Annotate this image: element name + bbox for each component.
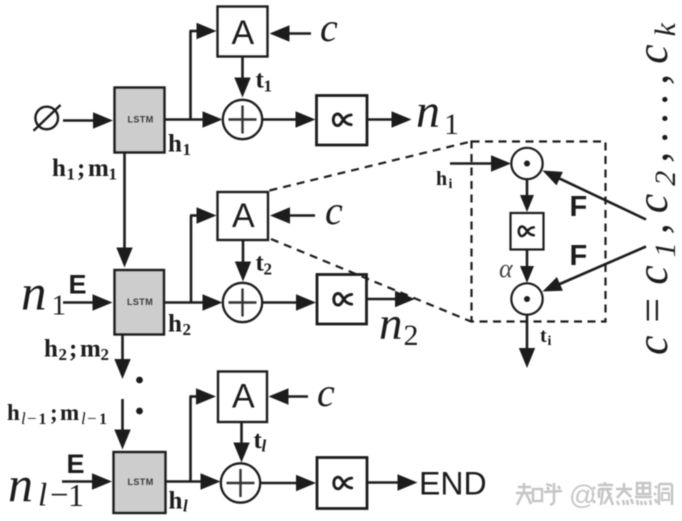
dashed inset box (attention detail) xyxy=(472,142,606,322)
wire: A1 down to adder 1, label t_1 xyxy=(241,57,244,81)
svg-text:1: 1 xyxy=(109,165,118,184)
svg-text:i: i xyxy=(449,177,453,192)
wire: odot A down to small softmax xyxy=(526,180,529,199)
svg-text:h: h xyxy=(169,488,183,515)
ellipsis dot 1 xyxy=(136,377,143,384)
svg-text:c: c xyxy=(317,370,335,415)
softmax box 3 xyxy=(317,458,367,509)
wire: branch up to attention A3 xyxy=(189,397,192,482)
dashed connector: A2 to inset (bottom) xyxy=(271,239,471,322)
svg-text:−: − xyxy=(50,478,69,514)
wire: LSTM1 down to LSTM2 xyxy=(123,153,126,251)
svg-text:A: A xyxy=(232,197,255,235)
svg-text:F: F xyxy=(570,240,588,272)
svg-text:2: 2 xyxy=(59,345,68,364)
wire: softmax 2 to n_2 xyxy=(367,298,399,301)
svg-text:E: E xyxy=(67,449,85,479)
svg-text:LSTM: LSTM xyxy=(128,115,154,125)
svg-text:n: n xyxy=(379,298,403,350)
attention block A3 xyxy=(218,372,267,423)
svg-text:c=c1,c2,...,ck: c=c1,c2,...,ck xyxy=(628,22,682,355)
svg-text:LSTM: LSTM xyxy=(127,297,153,307)
wire: softmax 3 to END xyxy=(367,481,401,484)
wire: n_l-1/E into LSTM3 xyxy=(62,480,95,483)
wire: adder 2 to softmax 2 xyxy=(262,301,299,304)
svg-text:;: ; xyxy=(69,336,77,363)
svg-text:2: 2 xyxy=(183,320,192,339)
wire: LSTM3 to adder 3 xyxy=(166,480,204,483)
svg-text:c: c xyxy=(320,5,338,50)
svg-text:A: A xyxy=(232,378,255,416)
adder circle 2 (plus) xyxy=(223,283,262,322)
svg-text:h: h xyxy=(168,131,182,158)
small softmax box (alpha) xyxy=(511,213,544,250)
svg-text:−: − xyxy=(27,409,37,428)
svg-text:1: 1 xyxy=(99,411,107,428)
wire: A2 down to adder 2, label t_2 xyxy=(242,240,245,265)
wire: LSTM2 to adder 2 xyxy=(164,301,206,304)
svg-text:2: 2 xyxy=(404,319,419,352)
svg-text:h: h xyxy=(44,336,58,363)
svg-text:h: h xyxy=(52,155,66,182)
svg-text:l: l xyxy=(183,497,188,516)
svg-text:h: h xyxy=(7,400,20,425)
LSTM block 2 xyxy=(115,270,165,335)
odot circle A (elementwise product) xyxy=(511,148,542,179)
adder circle 3 (plus) xyxy=(221,463,260,502)
svg-text:−: − xyxy=(87,409,97,428)
svg-text:1: 1 xyxy=(264,77,273,96)
wire: branch up to attention A2 xyxy=(190,216,193,303)
svg-text:n: n xyxy=(416,85,440,138)
rotated label c = c_1, c_2, ..., c_k xyxy=(628,22,682,355)
wire: c into A1 xyxy=(287,32,312,35)
svg-text:n: n xyxy=(8,456,33,512)
svg-text:i: i xyxy=(548,334,552,349)
svg-text:h: h xyxy=(168,311,182,338)
svg-text:;: ; xyxy=(77,155,85,182)
odot circle B xyxy=(511,283,542,314)
wire: LSTM2 down (to ellipsis) xyxy=(121,335,124,363)
svg-text:E: E xyxy=(69,270,87,300)
svg-text:t: t xyxy=(540,325,547,347)
adder circle 1 (plus) xyxy=(223,100,262,139)
empty-set start symbol xyxy=(35,107,58,130)
svg-text:1: 1 xyxy=(67,165,76,184)
attention block A2 xyxy=(218,192,269,240)
wire: c_i into odot A from right xyxy=(557,177,646,219)
watermark zhihu logo text xyxy=(518,486,531,489)
svg-text:l: l xyxy=(21,409,26,428)
svg-text:2: 2 xyxy=(101,345,110,364)
svg-text:LSTM: LSTM xyxy=(128,477,154,487)
svg-text:l: l xyxy=(81,409,86,428)
wire: A3 down to adder 3, label t_l xyxy=(240,422,243,446)
svg-text:h: h xyxy=(436,168,447,190)
softmax box 1 (proportional-to) xyxy=(317,96,368,146)
LSTM block 3 xyxy=(114,452,166,513)
wire: h_i into odot A, label h_i xyxy=(450,162,494,165)
wire: small softmax down to odot B xyxy=(526,250,529,270)
wire: softmax 1 to n_1 xyxy=(367,118,395,121)
wire: adder 3 to softmax 3 xyxy=(260,482,299,485)
svg-text:F: F xyxy=(570,191,588,223)
wire: LSTM1 to adder 1 xyxy=(165,118,206,121)
svg-text:n: n xyxy=(21,266,47,322)
wire: n_1/E into LSTM2 xyxy=(63,301,96,304)
attention block A1 xyxy=(218,7,268,57)
wire: c into A2 xyxy=(287,214,315,217)
svg-text:m: m xyxy=(88,155,109,182)
wire: branch up to attention A1 xyxy=(189,31,192,120)
svg-text:c: c xyxy=(325,188,343,233)
svg-text:2: 2 xyxy=(264,260,273,279)
svg-text:α: α xyxy=(499,254,514,283)
svg-text:m: m xyxy=(60,400,79,425)
svg-text:l: l xyxy=(262,437,267,456)
wire: adder 1 to softmax 1 xyxy=(262,118,298,121)
svg-text:m: m xyxy=(80,336,101,363)
LSTM block 1 xyxy=(115,88,165,153)
svg-text:l: l xyxy=(38,478,47,514)
svg-text:1: 1 xyxy=(39,411,47,428)
svg-text:A: A xyxy=(232,14,255,52)
wire: c_i into odot B from right xyxy=(557,247,646,286)
svg-text:END: END xyxy=(419,466,487,502)
dashed connector: A2 to inset (top) xyxy=(270,142,472,191)
label t_i and output wire down xyxy=(526,315,529,352)
wire: c into A3 xyxy=(286,395,309,398)
svg-text:1: 1 xyxy=(52,290,67,322)
wire: down into LSTM3 xyxy=(121,399,124,433)
softmax box 2 xyxy=(317,275,367,325)
svg-text:;: ; xyxy=(50,400,58,425)
svg-text:1: 1 xyxy=(444,108,459,141)
ellipsis dot 2 xyxy=(136,408,143,415)
svg-text:1: 1 xyxy=(183,140,192,159)
wire: start to LSTM1 xyxy=(63,119,96,122)
